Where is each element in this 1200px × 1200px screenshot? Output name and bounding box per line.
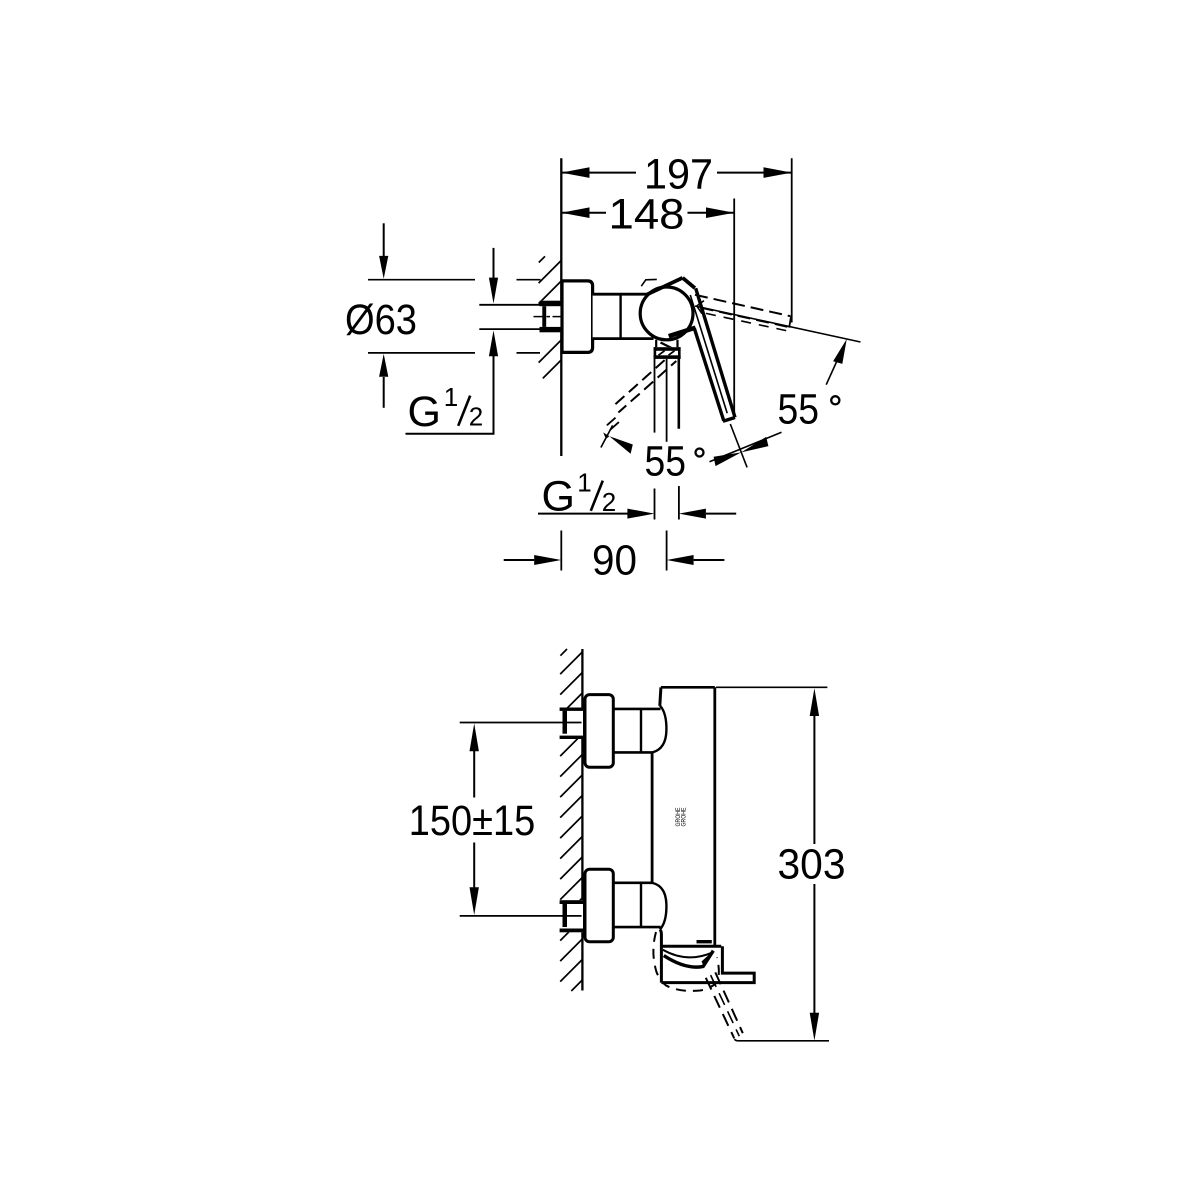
lower S-union pipe xyxy=(613,881,653,884)
svg-text:G: G xyxy=(408,388,441,436)
body outline (front view) xyxy=(661,686,715,689)
phantom lever (dashed) over outlet xyxy=(697,940,712,943)
lower escutcheon (front view) xyxy=(585,869,613,942)
svg-text:1: 1 xyxy=(444,382,458,412)
phantom lever (dashed, open position, to the right) xyxy=(695,295,791,316)
svg-text:GROHE: GROHE xyxy=(682,808,688,827)
lever handle (solid, down position) xyxy=(696,288,735,417)
lever head (solid) xyxy=(647,278,682,295)
dimension G1/2 (wall supply) arrows xyxy=(489,248,498,434)
reference line for 55° (horizontal-ish) xyxy=(695,306,861,342)
extension line from lever tip (bottom of 303) xyxy=(735,1039,830,1041)
extension line 197 (phantom lever tip) xyxy=(791,158,793,322)
svg-text:90: 90 xyxy=(592,537,637,585)
supply pipe behind wall xyxy=(479,304,542,306)
wall hatching (front view) xyxy=(560,649,582,991)
outlet pipe / extension lines below nut xyxy=(654,359,656,433)
cartridge ball xyxy=(640,287,693,340)
phantom lever shaft (dashed, 3 lines) xyxy=(706,978,735,1039)
phantom closed lever end cap xyxy=(607,418,616,426)
extension lines for 150±15 xyxy=(460,722,582,724)
wall line / dimension extension (top view) xyxy=(560,158,562,456)
dimension 197 xyxy=(561,150,791,198)
svg-text:1: 1 xyxy=(577,468,591,498)
outlet neck below ball xyxy=(655,340,657,348)
svg-text:303: 303 xyxy=(778,840,846,888)
phantom lever head corner (upper-left, open position) xyxy=(641,279,657,286)
dimension 150±15 xyxy=(409,723,536,915)
extension line 148 (lever tip) xyxy=(733,199,735,414)
angle 55° (upper right, between phantom open lever and solid lever) xyxy=(778,339,847,434)
phantom lever end cap xyxy=(789,317,791,328)
dimension G1/2 (bottom, shower outlet) xyxy=(538,468,736,521)
svg-text:150±15: 150±15 xyxy=(409,797,536,845)
lever head bottom wedge xyxy=(669,328,696,337)
svg-text:2: 2 xyxy=(469,402,483,432)
dimension Ø63 xyxy=(345,223,541,407)
axis extension of solid lever xyxy=(730,424,747,467)
svg-text:55: 55 xyxy=(778,386,820,434)
phantom lever head corner (right, open position) xyxy=(697,301,704,314)
upper S-union pipe xyxy=(613,708,660,711)
wall fitting (elbow union, section) xyxy=(540,301,562,333)
svg-text:148: 148 xyxy=(609,190,685,238)
angle 55° (lower, between closed phantom and solid lever) xyxy=(603,432,781,485)
extension line top of 303 xyxy=(716,686,827,688)
dimension 148 xyxy=(561,190,734,238)
svg-text:55: 55 xyxy=(645,438,687,486)
dimension 303 xyxy=(778,688,846,1040)
wall hatching (top view) xyxy=(539,256,562,378)
upper hex nut behind wall xyxy=(560,708,583,740)
escutcheon (wall rosette, top view) xyxy=(562,281,593,353)
phantom lever (dashed, closed position, to lower-left) xyxy=(613,360,665,407)
svg-text:Ø63: Ø63 xyxy=(345,296,417,344)
centerline (dash-dot) of supply xyxy=(534,316,561,318)
svg-text:2: 2 xyxy=(602,487,616,517)
upper escutcheon (front view) xyxy=(585,695,613,768)
union nut of shower outlet xyxy=(654,347,681,359)
outlet bracket and handle base xyxy=(660,930,754,983)
axis extension of phantom lever (closed, lower-left) xyxy=(601,425,613,447)
dimension 90 xyxy=(504,537,725,585)
label G1/2 (left) xyxy=(406,382,495,436)
wall line (front view) xyxy=(581,649,583,991)
lower hex nut behind wall xyxy=(560,900,583,932)
mixer body (top view) xyxy=(593,294,655,338)
lever tip cap xyxy=(723,418,735,422)
spout mouth (crescent) xyxy=(663,950,713,958)
body fill (front view) xyxy=(652,687,715,946)
